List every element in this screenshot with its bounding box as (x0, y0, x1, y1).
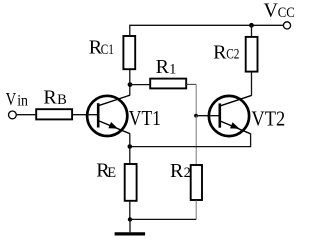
svg-text:R: R (43, 87, 57, 109)
wire VCC bus (129, 24, 283, 26)
svg-text:V: V (6, 89, 17, 109)
transistor VT2 (209, 95, 252, 136)
input terminal Vin (9, 111, 17, 119)
wire ground bus to R2 (130, 218, 196, 220)
junction ground node (128, 217, 132, 221)
svg-text:R: R (213, 41, 227, 63)
wire R2 to ground bus (195, 200, 197, 219)
ground (115, 232, 146, 235)
svg-text:R: R (170, 160, 184, 182)
wire to ground symbol (129, 219, 131, 232)
transistor VT1 (87, 95, 130, 136)
svg-text:C1: C1 (101, 42, 114, 58)
junction emitter node (128, 144, 133, 149)
junction VCC bus / RC2 (249, 23, 254, 28)
resistor R2 (191, 165, 202, 200)
svg-text:VT1: VT1 (129, 106, 161, 130)
svg-text:CC: CC (278, 5, 295, 21)
wire node A to R1 (130, 84, 150, 86)
wire node B to VT2 base (196, 115, 220, 117)
resistor RC2 (246, 37, 258, 72)
wire VT1 collector to node A (129, 85, 131, 96)
wire node B to R2 (195, 116, 197, 165)
svg-text:R: R (156, 56, 170, 78)
svg-text:B: B (57, 92, 67, 108)
svg-text:VT2: VT2 (251, 106, 285, 130)
resistor RC1 (123, 36, 135, 69)
wire node A to RC1 (129, 70, 131, 85)
svg-text:V: V (264, 0, 279, 22)
wire RB to VT1 base (73, 114, 98, 116)
junction node B (VT2 base) (194, 114, 198, 118)
wire RC1 to VCC bus (129, 25, 131, 36)
wire RE to ground node (129, 201, 131, 220)
svg-text:2: 2 (184, 165, 191, 181)
svg-text:E: E (107, 165, 116, 181)
svg-text:in: in (17, 92, 28, 109)
resistor R1 (150, 79, 186, 89)
resistor RE (125, 164, 137, 201)
wire node to RE (129, 147, 131, 164)
svg-text:1: 1 (169, 61, 176, 77)
wire VT2 emitter to emitter bus (130, 133, 251, 146)
wire RC2 to VT2 collector (251, 72, 253, 96)
wire VCC bus to RC2 (251, 25, 253, 37)
svg-text:C2: C2 (226, 47, 239, 63)
junction node A (128, 82, 133, 87)
wire R1 to node B (186, 84, 196, 115)
wire VT1 emitter to node (129, 133, 131, 146)
wire Vin to RB (16, 114, 35, 116)
terminal VCC (283, 22, 290, 29)
resistor RB (36, 109, 72, 119)
